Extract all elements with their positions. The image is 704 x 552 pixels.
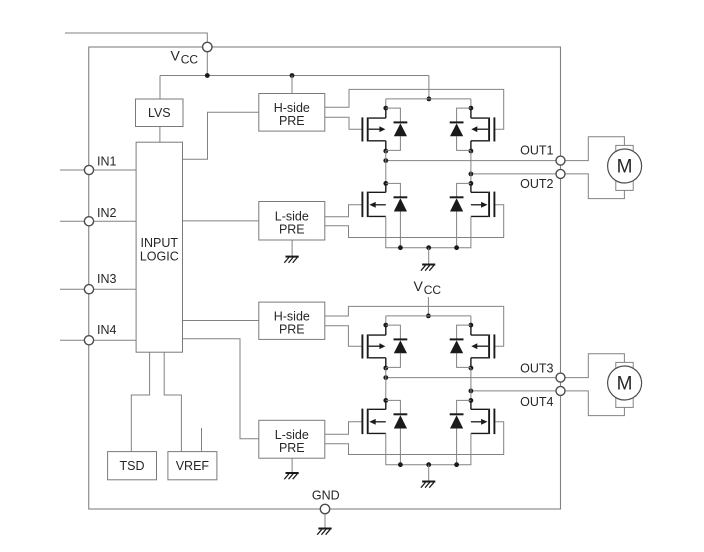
transistor Q5 (high-side left, bridge 2) bbox=[362, 323, 388, 371]
wire LVS supply stub bbox=[159, 76, 161, 100]
svg-text:LVS: LVS bbox=[148, 106, 171, 120]
motor M1 frame bbox=[616, 145, 633, 190]
ground symbol L-side PRE 2 bbox=[284, 473, 298, 479]
wire L-side PRE 1 to gate Q3 bbox=[325, 205, 363, 217]
ground symbol bridge 1 bbox=[421, 265, 435, 271]
wire drain trunk Q1 bbox=[385, 99, 387, 108]
svg-text:PRE: PRE bbox=[279, 114, 305, 128]
wire output node left bridge 1 bbox=[385, 151, 387, 183]
svg-text:IN1: IN1 bbox=[97, 155, 117, 169]
terminal OUT1 bbox=[556, 156, 565, 165]
wire drain trunk Q2 bbox=[470, 99, 472, 108]
wire L-side PRE 2 ground stub bbox=[291, 458, 293, 473]
terminal IN4 bbox=[84, 336, 93, 345]
svg-text:IN3: IN3 bbox=[97, 272, 117, 286]
junction diode D4 to rail bbox=[454, 245, 459, 250]
wire INPUT LOGIC to H-side PRE 2 bbox=[183, 320, 259, 322]
wire INPUT LOGIC to TSD bbox=[131, 352, 149, 451]
wire drain trunk Q5 bbox=[385, 316, 387, 325]
transistor Q2 (high-side right, bridge 1) bbox=[469, 106, 495, 154]
svg-text:INPUT: INPUT bbox=[141, 236, 179, 250]
diode D8 (body diode of Q8) bbox=[450, 400, 471, 464]
wire L-side PRE 1 to gate Q4 bbox=[325, 205, 504, 238]
block H-side PRE 1 bbox=[259, 94, 325, 132]
wire ground stub bridge 2 bbox=[428, 465, 430, 482]
wire INPUT LOGIC to VREF bbox=[164, 352, 181, 451]
terminal OUT3 bbox=[556, 373, 565, 382]
transistor Q8 (low-side right, bridge 2) bbox=[469, 398, 495, 434]
block L-side PRE 2 bbox=[259, 420, 325, 458]
junction OUT1 node bbox=[383, 158, 388, 163]
junction VCC terminal to rail bbox=[205, 73, 210, 78]
block LVS bbox=[136, 99, 184, 127]
block L-side PRE 1 bbox=[259, 202, 325, 241]
motor M2 bbox=[608, 366, 642, 400]
svg-text:VREF: VREF bbox=[176, 459, 210, 473]
wire L-side PRE 2 to gate Q7 bbox=[325, 422, 363, 434]
svg-text:OUT1: OUT1 bbox=[520, 144, 553, 158]
wire ground stub bridge 1 bbox=[428, 248, 430, 265]
wire H-side PRE 1 to gate Q1 bbox=[325, 117, 363, 129]
IC outline bbox=[89, 47, 561, 509]
wire VCC rail of H-bridge 1 bbox=[386, 98, 471, 100]
diode D3 (body diode of Q3) bbox=[386, 183, 408, 247]
svg-text:CC: CC bbox=[424, 283, 442, 297]
svg-text:OUT3: OUT3 bbox=[520, 362, 553, 376]
wire VCC feed to bridge 1 bbox=[428, 76, 430, 99]
wire INPUT LOGIC to L-side PRE 2 bbox=[183, 339, 259, 439]
svg-text:L-side: L-side bbox=[275, 209, 309, 223]
junction diode D8 to rail bbox=[454, 462, 459, 467]
diode D6 (body diode of Q6) bbox=[450, 325, 471, 367]
junction VCC feed bridge 2 bbox=[426, 314, 431, 319]
svg-text:IN4: IN4 bbox=[97, 323, 117, 337]
svg-text:GND: GND bbox=[312, 489, 340, 503]
wire input IN3 bbox=[60, 288, 136, 290]
junction diode D7 to rail bbox=[398, 462, 403, 467]
svg-text:M: M bbox=[617, 374, 633, 395]
transistor Q3 (low-side left, bridge 1) bbox=[362, 181, 388, 217]
junction ground stub bridge 2 bbox=[426, 462, 431, 467]
svg-text:PRE: PRE bbox=[279, 441, 305, 455]
wire input IN2 bbox=[60, 220, 136, 222]
terminal IN2 bbox=[84, 217, 93, 226]
transistor Q6 (high-side right, bridge 2) bbox=[469, 323, 495, 371]
junction OUT2 node bbox=[469, 172, 474, 177]
wire source rail bridge 1 bbox=[386, 216, 471, 247]
block VREF bbox=[168, 452, 217, 480]
svg-text:OUT4: OUT4 bbox=[520, 395, 553, 409]
terminal IN1 bbox=[84, 165, 93, 174]
wire L-side PRE 2 to gate Q8 bbox=[325, 422, 504, 455]
terminal OUT4 bbox=[556, 386, 565, 395]
wire input IN4 bbox=[60, 339, 136, 341]
wire output node right bridge 2 bbox=[470, 368, 472, 400]
ground symbol GND bbox=[317, 529, 331, 535]
ground symbol bridge 2 bbox=[421, 482, 435, 488]
wire H-side PRE 1 to gate Q2 bbox=[325, 89, 504, 129]
wire H-side PRE 1 supply stub bbox=[291, 76, 293, 94]
svg-text:LOGIC: LOGIC bbox=[140, 250, 179, 264]
wire GND stub bbox=[324, 509, 326, 529]
wire OUT3 bbox=[386, 354, 625, 378]
wire VCC rail bbox=[160, 75, 429, 77]
svg-text:H-side: H-side bbox=[274, 309, 310, 323]
wire input IN1 bbox=[60, 169, 136, 171]
wire INPUT LOGIC to H-side PRE 1 bbox=[183, 112, 259, 159]
diode D4 (body diode of Q4) bbox=[450, 183, 471, 247]
wire INPUT LOGIC to L-side PRE 1 bbox=[183, 220, 259, 222]
wire L-side PRE 1 ground stub bbox=[291, 240, 293, 257]
motor M2 frame bbox=[616, 362, 633, 407]
junction OUT4 node bbox=[469, 389, 474, 394]
wire source rail bridge 2 bbox=[386, 433, 471, 464]
diode D2 (body diode of Q2) bbox=[450, 108, 471, 150]
svg-text:IN2: IN2 bbox=[97, 206, 117, 220]
transistor Q7 (low-side left, bridge 2) bbox=[362, 398, 388, 434]
terminal GND bbox=[320, 504, 329, 513]
wire H-side PRE 2 to gate Q5 bbox=[325, 326, 363, 346]
svg-text:CC: CC bbox=[181, 52, 199, 66]
block INPUT LOGIC (U1) bbox=[136, 142, 182, 352]
svg-text:V: V bbox=[171, 48, 181, 64]
junction rail to H-side PRE 1 bbox=[290, 73, 295, 78]
svg-text:PRE: PRE bbox=[279, 222, 305, 236]
ground symbol L-side PRE 1 bbox=[284, 257, 298, 263]
junction VCC feed bridge 1 bbox=[427, 97, 432, 102]
terminal IN3 bbox=[84, 285, 93, 294]
wire VREF stub bbox=[201, 428, 203, 452]
svg-text:L-side: L-side bbox=[275, 428, 309, 442]
wire OUT1 bbox=[386, 137, 625, 161]
block TSD bbox=[108, 452, 157, 480]
wire H-side PRE 2 to gate Q6 bbox=[325, 306, 504, 346]
wire LVS to INPUT LOGIC bbox=[159, 127, 161, 143]
wire VCC external feed bbox=[65, 33, 207, 76]
transistor Q4 (low-side right, bridge 1) bbox=[469, 181, 495, 217]
diode D5 (body diode of Q5) bbox=[386, 325, 408, 367]
wire OUT4 bbox=[471, 391, 625, 416]
svg-text:V: V bbox=[414, 278, 424, 294]
wire output node left bridge 2 bbox=[385, 368, 387, 400]
diode D1 (body diode of Q1) bbox=[386, 108, 408, 150]
diode D7 (body diode of Q7) bbox=[386, 400, 408, 464]
svg-text:M: M bbox=[617, 157, 633, 178]
wire drain trunk Q6 bbox=[470, 316, 472, 325]
svg-text:H-side: H-side bbox=[274, 101, 310, 115]
junction OUT3 node bbox=[383, 375, 388, 380]
junction ground stub bridge 1 bbox=[426, 245, 431, 250]
wire output node right bridge 1 bbox=[470, 151, 472, 183]
wire VCC feed to bridge 2 bbox=[427, 297, 429, 316]
block H-side PRE 2 bbox=[259, 302, 325, 339]
transistor Q1 (high-side left, bridge 1) bbox=[362, 106, 388, 154]
terminal OUT2 bbox=[556, 169, 565, 178]
motor M1 bbox=[608, 149, 642, 183]
svg-text:OUT2: OUT2 bbox=[520, 177, 553, 191]
svg-text:TSD: TSD bbox=[120, 459, 145, 473]
wire VCC rail of H-bridge 2 bbox=[386, 315, 471, 317]
junction diode D3 to rail bbox=[398, 245, 403, 250]
svg-text:PRE: PRE bbox=[279, 322, 305, 336]
wire OUT2 bbox=[471, 174, 625, 199]
terminal VCC bbox=[203, 42, 212, 51]
